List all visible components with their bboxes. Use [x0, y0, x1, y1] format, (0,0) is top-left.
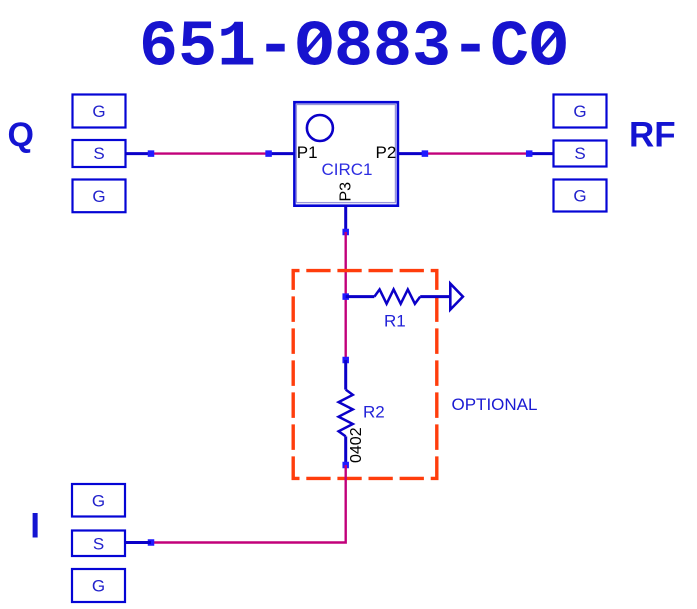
port box RF S	[554, 141, 607, 167]
svg-text:G: G	[92, 187, 105, 206]
svg-text:S: S	[93, 144, 104, 163]
port box I S	[72, 531, 125, 557]
svg-text:G: G	[573, 187, 586, 206]
junction square R2 top	[342, 357, 349, 364]
wire RF net (magenta)	[425, 152, 529, 154]
svg-text:G: G	[92, 102, 105, 121]
junction square RF2	[526, 150, 533, 157]
junction square I	[148, 539, 155, 546]
svg-text:OPTIONAL: OPTIONAL	[452, 395, 538, 414]
port box RF G2	[554, 180, 607, 212]
svg-text:G: G	[573, 102, 586, 121]
wire I S stub (blue)	[125, 541, 151, 544]
junction square P3	[342, 229, 349, 236]
junction square Q1	[148, 150, 155, 157]
wire into P1 (blue)	[269, 152, 295, 155]
svg-text:P1: P1	[297, 143, 318, 162]
resistor R1	[346, 289, 451, 303]
port box Q S	[73, 140, 126, 167]
wire Q net (magenta)	[151, 152, 269, 154]
junction square R1 node	[342, 293, 349, 300]
wire Q S stub (blue)	[125, 152, 151, 155]
port box Q G2	[73, 180, 126, 213]
CIRC1 circle	[307, 115, 333, 141]
wire I net (magenta, corner)	[151, 465, 346, 543]
svg-text:I: I	[30, 507, 40, 546]
svg-text:G: G	[92, 577, 105, 596]
svg-text:P3: P3	[338, 182, 355, 202]
svg-text:651-O883-CO: 651-O883-CO	[139, 11, 568, 85]
svg-text:RF: RF	[629, 115, 676, 154]
svg-text:R2: R2	[363, 402, 385, 421]
port box RF G1	[554, 95, 607, 128]
svg-text:CIRC1: CIRC1	[322, 160, 373, 179]
svg-text:G: G	[92, 491, 105, 510]
junction square R2 bottom	[342, 462, 349, 469]
svg-text:P2: P2	[376, 143, 397, 162]
CIRC1 inner box	[296, 105, 395, 203]
svg-text:R1: R1	[384, 312, 406, 331]
op-amp CIRC1 outer box	[294, 102, 398, 206]
port box I G2	[72, 569, 125, 602]
arrow port	[450, 284, 463, 310]
svg-text:Q: Q	[8, 116, 34, 154]
wire into RF S (blue)	[529, 152, 553, 155]
wire P2 out (blue)	[398, 152, 425, 155]
svg-text:0402: 0402	[348, 427, 365, 463]
wire P3 net vertical (magenta)	[345, 232, 347, 360]
svg-text:S: S	[574, 144, 585, 163]
title 651-0883-C0	[139, 11, 568, 85]
resistor R2	[339, 360, 353, 465]
port box I G1	[72, 484, 125, 517]
port box Q G1	[73, 95, 126, 128]
junction square Q2	[265, 150, 272, 157]
junction square RF1	[422, 150, 429, 157]
optional dashed box	[292, 269, 439, 479]
wire P3 stub (blue)	[344, 205, 347, 233]
svg-text:S: S	[93, 534, 104, 553]
